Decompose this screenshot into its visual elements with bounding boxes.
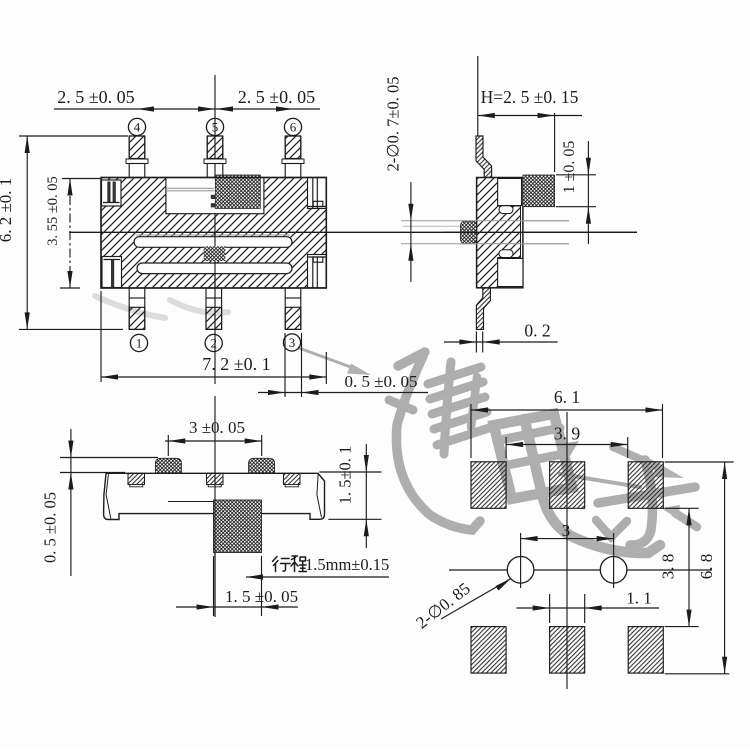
watermark char jian radical hook <box>389 400 413 410</box>
watermark char jian radical top stroke <box>398 352 425 366</box>
dim 3±0.05: extension lines <box>167 435 169 456</box>
svg-text:1. 5±0. 1: 1. 5±0. 1 <box>335 446 354 505</box>
watermark check stroke <box>596 520 627 537</box>
side view: gray through-lines <box>401 220 569 222</box>
watermark char dian vertical tail <box>525 419 661 553</box>
top view: slot 1 <box>134 237 292 248</box>
dim 0.5 knob height: extension lines <box>60 457 158 459</box>
top view: vertical centerline through pin 5 <box>214 75 216 384</box>
dim 7.2: extension lines <box>100 291 102 382</box>
dim 1.1: line with outside arrows <box>517 607 660 609</box>
dim 1.1: extension lines <box>549 594 551 623</box>
pin number circles 4 5 6 <box>128 118 145 135</box>
top view: pin 4 <box>126 136 148 178</box>
svg-text:3: 3 <box>289 335 296 350</box>
svg-text:0. 2: 0. 2 <box>524 321 550 341</box>
pin number circles 1 2 3 <box>130 334 147 351</box>
dim 3.8: extension lines <box>665 507 699 509</box>
side view: molded post notches <box>499 206 513 214</box>
svg-text:3. 55 ±0. 05: 3. 55 ±0. 05 <box>45 176 61 246</box>
top view: gray contact line above slot 1 <box>136 234 290 236</box>
svg-text:2: 2 <box>210 336 217 351</box>
front view: centerline overlay <box>214 475 216 617</box>
front view: pin 5 stub <box>207 473 224 484</box>
front view: step line left of actuator <box>168 501 214 503</box>
watermark char jian right vertical <box>471 377 477 427</box>
side view: left common terminal crosshatch <box>461 221 477 243</box>
svg-text:H=2. 5 ±0. 15: H=2. 5 ±0. 15 <box>481 87 579 107</box>
top view: body outline <box>101 178 326 289</box>
dim 6.2: vertical line with arrows <box>26 136 28 329</box>
watermark char zi top stroke with arrow <box>613 447 658 467</box>
dim 3.9: line with arrows <box>506 444 628 446</box>
top view: body with hatch <box>101 178 326 289</box>
side view: bottom gull-wing lead <box>476 288 490 329</box>
dim 0.2: line with outside arrows <box>444 341 558 343</box>
dim 0.5: line with outside arrows <box>258 392 428 394</box>
pcb pad bottom-right <box>628 627 663 674</box>
svg-text:6: 6 <box>290 120 297 135</box>
dim 1.5±0.05: extension lines <box>213 556 215 616</box>
dim 6.8: extension lines <box>665 461 734 463</box>
dim 1.5±0.1: vertical line with outside arrows <box>365 444 367 548</box>
top view: top-right notch <box>308 178 327 209</box>
dim 0.2: extension lines <box>475 332 477 353</box>
dim 3.55: vertical line with arrows <box>69 179 71 289</box>
svg-text:3. 8: 3. 8 <box>659 554 678 580</box>
pcb pad top-left <box>471 462 506 509</box>
dim H=2.5: line with arrows <box>478 115 582 117</box>
svg-text:6. 2 ±0. 1: 6. 2 ±0. 1 <box>0 178 15 243</box>
front view: right end crease <box>317 474 322 518</box>
dim 3.55: extension ticks <box>62 178 100 180</box>
front view: knob B crosshatch <box>249 458 275 473</box>
dim 2-d0.7: vertical line with outside arrows <box>410 182 412 282</box>
svg-text:0. 5 ±0. 05: 0. 5 ±0. 05 <box>344 372 417 391</box>
dim H=2.5: extension line at knob tip <box>554 113 556 172</box>
watermark char zi mid bar <box>598 487 695 503</box>
pcb pad bottom-middle <box>550 627 585 674</box>
svg-text:0. 5 ±0. 05: 0. 5 ±0. 05 <box>41 492 60 563</box>
svg-text:1.5mm±0.15: 1.5mm±0.15 <box>305 555 389 574</box>
dim 3.9: extension lines <box>505 437 507 458</box>
watermark char jian bars <box>428 367 481 384</box>
svg-text:4: 4 <box>134 120 141 135</box>
top view: pin 3 <box>285 288 301 329</box>
pcb pad bottom-left <box>471 627 506 674</box>
dim 6.2: extension lines <box>19 135 128 137</box>
svg-text:1. 5 ±0. 05: 1. 5 ±0. 05 <box>225 587 298 606</box>
front view: pin 6 stub <box>284 473 301 484</box>
2-d0.85 leader with arrow <box>441 579 511 620</box>
svg-text:1 ±0. 05: 1 ±0. 05 <box>561 141 578 194</box>
top view: bottom-right notch <box>308 255 327 288</box>
svg-text:1. 1: 1. 1 <box>626 589 652 608</box>
pcb hole centerline ticks <box>520 533 522 588</box>
side view: slider upper part <box>498 179 522 206</box>
watermark char jian radical-sweep stroke <box>396 356 480 530</box>
side view: vertical centerline <box>477 56 479 136</box>
travel leader line with arrow <box>246 576 389 578</box>
dim 1±0.05: extension lines <box>556 174 596 176</box>
svg-text:1: 1 <box>136 336 143 351</box>
top view: horizontal centerline <box>69 231 637 233</box>
top view: pin 5 <box>204 136 226 178</box>
front view: pin 4 stub <box>128 473 145 484</box>
top view: slot 2 <box>137 263 292 274</box>
dim 3 holes: line with arrows <box>521 538 614 540</box>
top view: slider window <box>166 178 264 214</box>
top view: pin 1 <box>129 288 145 329</box>
side view: slider lower part <box>498 259 523 287</box>
top view: knob left nubs <box>211 195 216 199</box>
front view: actuator crosshatch block <box>214 500 262 553</box>
side view: centerline overlay across body <box>444 231 637 233</box>
watermark char zi hook <box>630 460 653 545</box>
dim 1.5±0.1: extension lines <box>319 471 381 473</box>
pcb pad top-right <box>628 462 663 509</box>
pcb view: vertical centerline <box>566 412 568 689</box>
top view: slider knob crosshatch <box>215 175 260 208</box>
top view: bottom-left terminal tab <box>102 257 122 288</box>
front view: body outline <box>104 473 325 519</box>
svg-text:3 ±0. 05: 3 ±0. 05 <box>189 418 245 437</box>
dim 3.8: vertical line with arrows <box>688 508 690 626</box>
pcb hole left <box>507 557 534 584</box>
dim 1.5±0.05: line with outside arrows <box>176 606 298 608</box>
svg-text:3: 3 <box>562 521 571 540</box>
svg-text:2. 5 ±0. 05: 2. 5 ±0. 05 <box>57 87 134 107</box>
side view: knob crosshatch <box>523 175 555 207</box>
top view: top-left terminal tab <box>102 180 122 206</box>
top view: vertical centerline overlay across slots <box>214 233 216 287</box>
hand-drawn CJK: 行程 (travel) <box>273 556 307 572</box>
dim 6.1: line with arrows <box>471 409 663 411</box>
top view: small crosshatch square between slots <box>204 246 226 261</box>
watermark char dian inner bars <box>498 428 561 441</box>
dim 2.5 top: line and arrows <box>54 108 320 110</box>
svg-text:7. 2 ±0. 1: 7. 2 ±0. 1 <box>202 354 270 374</box>
svg-text:6. 8: 6. 8 <box>697 554 716 580</box>
dim 1±0.05: vertical line with outside arrows <box>587 141 589 244</box>
watermark char dian box <box>494 414 572 499</box>
svg-text:2. 5 ±0. 05: 2. 5 ±0. 05 <box>238 87 315 107</box>
watermark leader arrow from pin3 <box>299 348 360 371</box>
watermark <box>95 296 697 553</box>
side view: top gull-wing lead <box>476 136 492 178</box>
dim 6.8: vertical line with arrows <box>724 462 726 674</box>
side view: body <box>477 178 523 288</box>
top view: spring contact (gray) <box>167 188 214 191</box>
top view: pin 2 <box>206 288 222 329</box>
pcb hole right <box>600 557 627 584</box>
front view: left end crease <box>106 474 111 519</box>
watermark faint curls top view <box>95 296 228 318</box>
side view: hatched cross-section <box>477 178 521 288</box>
dim 0.5 pin width: extension lines <box>284 333 286 397</box>
dim 6.1: extension lines <box>470 404 472 458</box>
pcb pad top-middle <box>550 462 585 509</box>
dim 3±0.05: line with arrows <box>165 440 262 442</box>
svg-text:3. 9: 3. 9 <box>554 424 581 444</box>
watermark char zi small arrow stroke <box>675 513 697 527</box>
front view: vertical centerline <box>214 396 216 617</box>
pcb view: horizontal centerline <box>449 569 712 571</box>
svg-text:2-∅0. 7±0. 05: 2-∅0. 7±0. 05 <box>384 77 403 172</box>
front view: knob A crosshatch <box>155 458 181 473</box>
watermark char jian vertical <box>444 362 451 454</box>
svg-text:6. 1: 6. 1 <box>554 387 580 407</box>
top view: pin 6 <box>282 136 304 178</box>
dim 7.2: line with arrows <box>101 376 326 378</box>
svg-text:5: 5 <box>212 120 219 135</box>
dim 0.5: vertical line with outside arrows <box>70 429 72 576</box>
